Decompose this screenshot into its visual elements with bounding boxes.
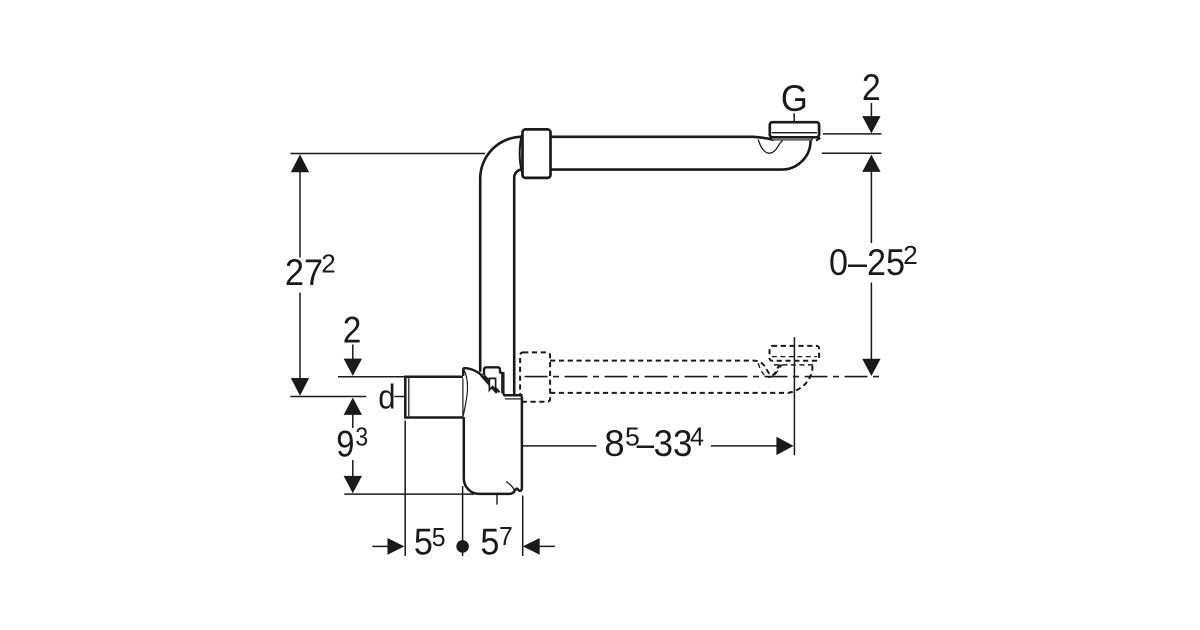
- svg-text:2: 2: [903, 240, 918, 270]
- dashed outlet pipe bottom edge: [550, 366, 812, 393]
- svg-text:27: 27: [285, 252, 323, 293]
- svg-text:5: 5: [414, 522, 433, 563]
- L-pipe fill: [480, 137, 810, 396]
- dashed outlet flange inner line: [772, 356, 817, 358]
- svg-text:2: 2: [862, 67, 881, 108]
- dimension 0-25-2: bottom arrowhead: [862, 359, 880, 376]
- dimension 0-25-2: vertical line: [870, 171, 872, 361]
- bottom dimension: left arrowhead (pointing right): [388, 538, 405, 555]
- dashed outlet gasket: [774, 364, 813, 366]
- trap inlet pipe (d): [405, 377, 463, 418]
- dimension 2 left: shaft: [352, 345, 354, 360]
- bottom dimension: extension line at x=462.6: [462, 486, 464, 556]
- trap body: bottom tick: [496, 495, 498, 505]
- L-pipe: thin inner U-curve at pipe end: [758, 139, 782, 153]
- dimension 27-2: top reference line: [290, 153, 485, 155]
- dimension 27-2: bottom arrowhead: [291, 378, 309, 396]
- trap body: clip inner right line: [501, 373, 503, 393]
- dimension 0-25-2: top arrowhead: [862, 155, 880, 172]
- dimension 8-5 - 33-4: arrowhead: [776, 437, 793, 455]
- svg-text:2: 2: [343, 310, 362, 351]
- flange gasket right tab: [816, 138, 820, 141]
- bottom dimension: middle dot: [456, 540, 469, 553]
- trap inlet pipe end thin edge: [462, 378, 464, 416]
- svg-text:9: 9: [336, 424, 354, 465]
- dashed outlet flange: [770, 346, 820, 361]
- dimension 0-25-2: reference line 2: [822, 152, 882, 154]
- svg-text:3: 3: [355, 422, 368, 452]
- dimension 27-2: vertical line: [299, 156, 301, 394]
- G leader line: [793, 113, 795, 121]
- dimension 9-3: top arrowhead: [344, 398, 362, 415]
- dimension 8-5 - 33-4: extension line: [793, 337, 795, 455]
- dimension 9-3: shaft: [352, 400, 354, 478]
- svg-text:0–25: 0–25: [829, 242, 905, 283]
- collar nut on horizontal pipe: [523, 129, 551, 178]
- dimension 27-2: bottom reference line (d centerline): [290, 396, 405, 398]
- L-pipe: pipe end arcs behind collar: [519, 133, 523, 175]
- svg-text:8: 8: [604, 423, 624, 464]
- dimension 2 right: shaft: [870, 103, 872, 119]
- trap body: bottom wave break: [506, 482, 514, 491]
- L-pipe: right end outer bend and bottom and inner elbow outline: [514, 141, 810, 396]
- dimension 2 right: arrowhead: [862, 116, 880, 133]
- trap body: clip diagonal streak 2: [484, 375, 499, 392]
- trap body: left edge: [463, 417, 466, 478]
- dimension 2 left: arrowhead: [344, 359, 362, 376]
- trap body: bottom outline: [464, 479, 522, 494]
- trap body: clip diagonal streak 1: [481, 375, 497, 393]
- dimension 9-3: bottom reference line C: [344, 493, 474, 495]
- svg-text:G: G: [781, 78, 808, 119]
- trap body: clip slot: [489, 378, 495, 390]
- trap body: right edge: [521, 396, 524, 487]
- trap body: shoulder outline: [463, 368, 482, 376]
- bottom dimension: extension line at x=522.7: [522, 496, 524, 557]
- trap body fill: [463, 368, 522, 494]
- trap body: clip tab outline: [484, 367, 505, 395]
- bottom dimension: extension line at x=405: [404, 421, 406, 557]
- outlet centerline (dash-dot): [525, 376, 882, 378]
- trap body: break S-curve: [463, 369, 468, 417]
- trap body: outlet stub under line: [505, 398, 522, 400]
- dimension 2 right: reference line 1: [823, 133, 882, 135]
- dimension 2 left: reference line A: [338, 376, 405, 378]
- svg-text:2: 2: [321, 249, 335, 279]
- dimension 9-3: bottom arrowhead: [344, 476, 362, 493]
- L-pipe: outer-left and top outline with sloped end: [480, 137, 774, 372]
- flange gasket: [772, 138, 813, 140]
- dashed outlet pipe top edge: [550, 361, 781, 376]
- dashed outlet collar: [520, 352, 550, 401]
- flange (G connection): [770, 122, 819, 137]
- dimension 27-2: top arrowhead: [291, 154, 309, 172]
- svg-text:–: –: [637, 423, 655, 464]
- trap body: clip white fill: [481, 367, 505, 395]
- trap inlet pipe inner edge line: [408, 378, 410, 416]
- bottom dimension: right arrowhead (pointing left): [523, 538, 540, 555]
- dimension 8-5 - 33-4: dimension line: [523, 445, 777, 447]
- dashed outlet thin U-curve at pipe end: [758, 363, 782, 377]
- trap inlet pipe outline (open at right): [405, 377, 463, 418]
- trap body: outlet stub top edge: [504, 394, 523, 397]
- flange inner line: [772, 132, 817, 134]
- svg-text:7: 7: [499, 521, 513, 551]
- bottom dimension: right shaft: [539, 545, 555, 547]
- svg-text:5: 5: [432, 522, 446, 552]
- svg-text:d: d: [378, 378, 395, 416]
- svg-text:33: 33: [654, 423, 693, 464]
- svg-text:4: 4: [690, 422, 704, 452]
- svg-text:5: 5: [480, 522, 499, 563]
- bottom dimension 5-5 / 5-7: left shaft: [372, 545, 387, 547]
